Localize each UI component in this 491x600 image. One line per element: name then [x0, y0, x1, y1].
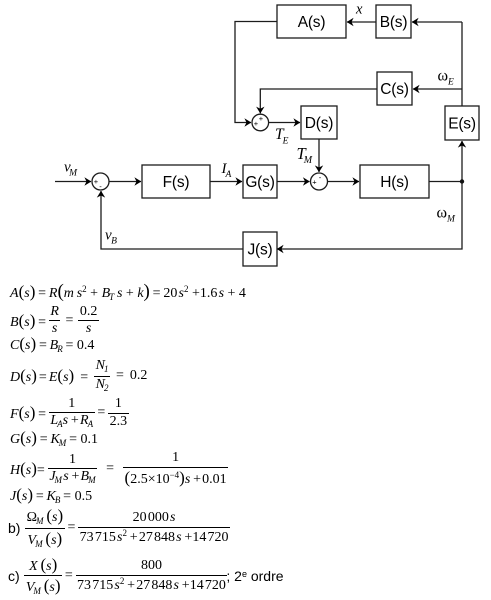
equation c — [8, 558, 284, 594]
block B1 — [376, 5, 411, 38]
svg-text:TM: TM — [297, 144, 313, 166]
svg-text:+: + — [259, 114, 264, 123]
wire C left down to S3 top — [260, 89, 377, 113]
wire G to S2 — [277, 181, 310, 183]
svg-text:D(s): D(s) — [305, 115, 334, 132]
wire branch to C — [413, 88, 462, 90]
equation A — [10, 284, 246, 300]
svg-text:ωM: ωM — [437, 205, 457, 225]
block E1 — [445, 106, 479, 140]
wire S1 to F — [109, 181, 141, 183]
summing junction S1 — [92, 173, 109, 190]
svg-text:TE: TE — [275, 126, 289, 147]
svg-text:C(s): C(s) — [380, 81, 409, 98]
wire top to B — [412, 21, 462, 23]
svg-text:A(s): A(s) — [298, 14, 326, 31]
svg-text:G(s): G(s) — [245, 174, 274, 191]
block G1 — [243, 165, 277, 198]
svg-text:+: + — [94, 177, 99, 186]
svg-text:E(s): E(s) — [448, 116, 476, 133]
svg-text:H(s): H(s) — [380, 174, 409, 191]
equation C — [10, 336, 94, 352]
summing junction S2 — [311, 173, 328, 190]
equation D — [10, 359, 147, 393]
wire J left up to S1 bottom — [101, 191, 243, 249]
wire S3 to D — [269, 122, 300, 124]
equation H — [10, 451, 228, 487]
svg-text:B(s): B(s) — [380, 14, 408, 31]
block D1 — [301, 106, 337, 139]
equation J — [10, 487, 92, 503]
wire input vM to S1 — [55, 181, 91, 183]
equation F — [10, 397, 129, 429]
wire S2 to H — [328, 181, 360, 183]
svg-text:vB: vB — [105, 228, 117, 247]
wire D down to S2 top — [318, 139, 320, 172]
wire F to G — [210, 181, 242, 183]
svg-text:-: - — [319, 173, 322, 182]
summing junction S3 — [252, 114, 269, 131]
svg-text:+: + — [254, 119, 259, 128]
svg-text:J(s): J(s) — [247, 242, 272, 259]
wire E top up — [461, 22, 463, 106]
svg-text:ωE: ωE — [438, 68, 455, 88]
svg-text:F(s): F(s) — [163, 174, 190, 191]
equation G — [10, 430, 98, 446]
wire H to node wM — [429, 181, 462, 183]
equation b — [8, 510, 230, 546]
block diagram — [0, 0, 491, 280]
block J1 — [243, 232, 277, 266]
block C1 — [377, 72, 412, 105]
wire node to E bottom — [461, 141, 463, 182]
block H1 — [360, 165, 429, 198]
svg-text:+: + — [312, 178, 317, 187]
svg-text:x: x — [355, 2, 363, 18]
equation B — [10, 307, 99, 334]
svg-text:IA: IA — [221, 161, 232, 180]
svg-text:vM: vM — [64, 160, 78, 179]
wire A left down to S3 — [235, 22, 277, 123]
node dot wM — [460, 179, 464, 183]
wire B to A — [347, 21, 376, 23]
block A1 — [277, 5, 346, 38]
wire node down to J — [277, 182, 462, 250]
block F1 — [142, 165, 210, 198]
